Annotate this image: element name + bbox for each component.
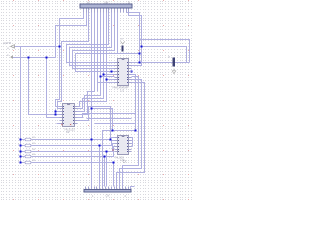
wire R1 row to U3 pin1 bbox=[32, 138, 115, 140]
wire CN1 pin12 to U1 pin3 bbox=[73, 10, 115, 69]
wire drop x46.6 to U2 pin5 bbox=[47, 58, 63, 118]
wire U2 pin10 up to CN1 pin8 bbox=[78, 10, 104, 109]
wire U2 pin3 stub bbox=[56, 111, 63, 113]
wire CN1 pin13 to U1 pin4 bbox=[76, 10, 118, 72]
wire U1 pin7 feed bbox=[107, 79, 115, 81]
no-connect marks U2 bbox=[61, 124, 71, 125]
wire stub R2 left bbox=[21, 145, 25, 147]
wire loop CN1 pin17 to U1 pin19 bbox=[129, 10, 142, 66]
wire U1 pin5 feed bbox=[104, 74, 115, 76]
wire U2 pin7 stub bbox=[57, 123, 63, 125]
power flag net B bbox=[7, 55, 13, 58]
wire CN1 pin6 down bbox=[97, 10, 99, 92]
wire U1 pin14 wrap to CN2 bbox=[120, 80, 142, 187]
wire net A horizontal bbox=[15, 46, 60, 48]
wire loop branch upper right bbox=[140, 40, 190, 63]
wire stub R5 left bbox=[21, 162, 25, 164]
op IC U2 bbox=[60, 104, 78, 135]
wire CN1 pin4 long vertical to CN2 bbox=[91, 10, 93, 187]
jumper J3 above U1 bbox=[120, 38, 124, 51]
resistor R4 bbox=[18, 154, 36, 158]
wire U2 pin14 to R1 junction bbox=[78, 107, 111, 140]
wire U2 pin9 up to CN1 pin9 bbox=[78, 10, 107, 107]
op IC U1 bbox=[112, 59, 132, 93]
wire CN1 pin11 to U1 pin2 bbox=[70, 10, 115, 66]
op IC U3 bbox=[115, 136, 132, 163]
connector CN1 bbox=[80, 0, 132, 12]
wire R4 drop to CN2 bbox=[104, 157, 106, 187]
wire R5 drop to CN2 bbox=[113, 163, 115, 187]
wire mid node branch bbox=[92, 109, 113, 131]
resistor R3 bbox=[18, 149, 36, 153]
wire R4 row to U3 pin4 bbox=[32, 147, 115, 157]
wire R5 row bbox=[32, 162, 114, 164]
wire U2 pin13 to node x135 bbox=[78, 114, 136, 118]
wire net D1 CN1 pin2 down-left bbox=[56, 10, 87, 58]
wire U2 pin11 up to CN1 pin7 bbox=[78, 10, 101, 112]
wire resistor bus vertical x20.8 bbox=[20, 47, 22, 163]
wire U3 right comb bbox=[131, 138, 133, 147]
wire net D0 CN1 pin1 to U2 pin1 bbox=[56, 10, 84, 107]
wire U3 pin stub r4 bbox=[131, 146, 133, 148]
wire stub R4 left bbox=[21, 156, 25, 158]
designator circle U3 bbox=[123, 160, 126, 163]
wire U1 pin6 feed bbox=[101, 76, 115, 78]
wire U3 pin stub r2 bbox=[131, 140, 133, 142]
snap reference dots bbox=[13, 0, 189, 200]
wire y53.3 right segment bbox=[118, 53, 140, 55]
wire R3 drop to CN2 bbox=[106, 152, 108, 187]
wire loop branch inner right bbox=[142, 47, 187, 63]
svg-text:CN: CN bbox=[106, 194, 110, 198]
wire stub R1 left bbox=[21, 139, 25, 141]
wire CN2 right end bbox=[131, 187, 135, 190]
grid dots bbox=[1, 1, 192, 200]
junction dots bbox=[20, 46, 143, 164]
wire filler bus c bbox=[95, 123, 136, 125]
wire R3 row to U3 pin3 bbox=[32, 144, 115, 152]
resistor R2 bbox=[18, 143, 36, 147]
wire filler bus b bbox=[87, 118, 132, 120]
wire R2 row to U3 pin2 bbox=[32, 141, 115, 146]
wire U1 pin20 row right bbox=[132, 62, 190, 64]
resistor R5 bbox=[18, 160, 36, 164]
wire U3 pin stub r3 bbox=[131, 143, 133, 145]
connector CN2 bbox=[84, 187, 131, 198]
svg-text:UW: UW bbox=[104, 0, 109, 4]
wire U1 pin16 around U3 bbox=[103, 75, 136, 187]
wire CN1 pin10 to U1 pin1 bbox=[67, 10, 115, 63]
wire net D2 CN1 pin3 to U2 pin2 bbox=[58, 10, 89, 109]
wire stub R3 left bbox=[21, 151, 25, 153]
jumper J4 right bbox=[168, 56, 176, 73]
svg-text:B: B bbox=[128, 1, 130, 5]
wire U1 pin15 wrap to CN2 bbox=[123, 77, 139, 187]
wire net B horizontal bbox=[13, 57, 56, 59]
wire U1 pin8 feed bbox=[98, 82, 115, 84]
wire U1 pin13 wrap to CN2 bbox=[117, 83, 145, 187]
resistor R1 bbox=[18, 137, 36, 141]
wire drop x28 to U2 pin4 bbox=[29, 58, 63, 115]
power flag net A bbox=[3, 41, 15, 50]
wire R2 drop to CN2 bbox=[99, 146, 101, 187]
wire node x55.9 to U2 pin3 bbox=[55, 109, 57, 115]
wire loop CN1 pin16 vertical bbox=[127, 10, 140, 63]
no-connect mark U3 bbox=[112, 149, 113, 150]
wire U2 pin12 up to CN1 pin5 bbox=[78, 10, 95, 115]
